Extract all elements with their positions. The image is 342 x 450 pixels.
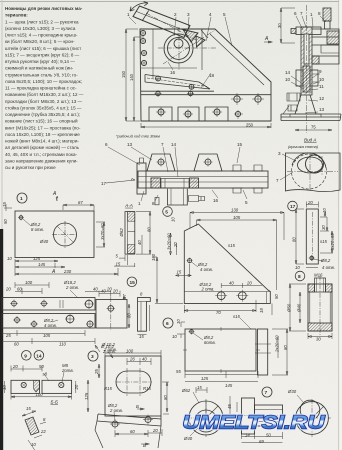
right scan edge faint line bbox=[338, 0, 340, 450]
bushing section bbox=[308, 284, 332, 331]
knife beam slanted bbox=[145, 75, 210, 90]
dims right bbox=[136, 212, 151, 255]
bottom dims bbox=[2, 330, 85, 336]
leaders bottom bbox=[106, 178, 135, 183]
dim 67 bbox=[63, 204, 94, 211]
side bar bbox=[258, 329, 268, 375]
main vertical hatched column bbox=[301, 27, 312, 95]
dims below bbox=[242, 432, 283, 439]
left scan edge light bbox=[1, 0, 3, 232]
leader bbox=[52, 290, 78, 322]
knob small rects top right bbox=[323, 8, 331, 21]
mid small parts bbox=[303, 66, 310, 92]
bolt holes column bbox=[140, 30, 145, 35]
base pads bbox=[149, 107, 228, 121]
top plate bbox=[296, 27, 321, 35]
dimension 140 bbox=[133, 37, 144, 121]
left bolts bbox=[287, 93, 300, 101]
top dims bbox=[15, 282, 49, 294]
thread boss bbox=[315, 278, 326, 292]
handle bbox=[133, 6, 190, 38]
bracket 1 bbox=[147, 154, 175, 171]
dims around left disc bbox=[196, 387, 207, 393]
left disc circle bbox=[189, 401, 223, 435]
base foot bbox=[295, 95, 316, 114]
leaders bbox=[108, 352, 113, 358]
dim 70 bottom bbox=[184, 300, 256, 313]
bore walls bbox=[310, 292, 330, 323]
right dims 40 20 bbox=[221, 283, 262, 288]
bottom holes bbox=[112, 421, 118, 427]
dims bbox=[306, 202, 318, 208]
dim 15 bbox=[176, 264, 192, 277]
machine body outline bbox=[140, 29, 271, 121]
right circle bbox=[296, 402, 329, 435]
center line bbox=[306, 5, 308, 133]
side view bbox=[242, 398, 255, 434]
left scan edge black strip bbox=[0, 229, 3, 450]
leaders from top callouts bbox=[108, 147, 240, 177]
rotation double arrow bbox=[130, 3, 148, 11]
strip B bbox=[2, 314, 95, 329]
lower center block bbox=[167, 189, 187, 205]
gusset holes bbox=[234, 96, 240, 102]
dim 105 bbox=[197, 219, 277, 290]
plate inner vertical line bbox=[152, 29, 154, 78]
eccentric big circle bbox=[164, 34, 193, 63]
dims bbox=[128, 304, 130, 328]
side bar L-profile bbox=[138, 298, 151, 332]
gusset inner diagonal bbox=[210, 34, 264, 85]
clamp hatched wedge bbox=[183, 30, 198, 43]
beam bbox=[138, 171, 268, 188]
dimension 150 bbox=[125, 29, 140, 121]
A section arrow bbox=[264, 41, 272, 43]
bottom dims bbox=[114, 255, 135, 267]
hatched blocks bbox=[151, 178, 161, 188]
dim 230 bbox=[15, 259, 118, 276]
bolts pairs bbox=[233, 165, 262, 193]
dim 30 left bbox=[280, 8, 295, 43]
dimension 250 bbox=[141, 123, 271, 128]
dim 130 bbox=[190, 212, 284, 241]
dims bbox=[105, 350, 161, 356]
top scan edge bbox=[0, 1, 342, 3]
right bolt horizontal bbox=[189, 196, 205, 202]
dim 145 bbox=[15, 266, 65, 268]
dim 125 bbox=[15, 260, 58, 262]
dims top bbox=[99, 291, 120, 297]
dims bbox=[11, 366, 42, 372]
bracket 2 bbox=[194, 154, 222, 171]
wedge notch bbox=[34, 380, 40, 392]
left cap bbox=[137, 163, 146, 194]
strip A bbox=[2, 298, 95, 311]
left dims bbox=[170, 233, 177, 255]
dims bbox=[289, 284, 306, 331]
B arrow bbox=[137, 408, 144, 410]
dim 15 bbox=[4, 204, 12, 211]
right dim 3x20=60 bbox=[96, 222, 105, 247]
plate bbox=[96, 300, 127, 329]
dims bbox=[177, 322, 185, 338]
bottom dims bbox=[115, 430, 148, 437]
s15 leader bbox=[240, 318, 251, 329]
A arrows bbox=[56, 196, 58, 201]
lower beam bbox=[141, 91, 271, 95]
bent bottom strip bbox=[97, 414, 161, 426]
right big block bbox=[312, 29, 339, 64]
crosshairs bbox=[158, 27, 216, 70]
dim 75 bbox=[295, 129, 332, 131]
obround slot bbox=[116, 371, 151, 393]
left small bolt bbox=[155, 197, 159, 204]
